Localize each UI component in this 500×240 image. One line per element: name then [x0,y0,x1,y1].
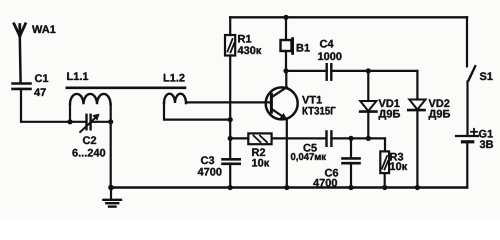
label 0,047мк [291,153,326,162]
label VT1 [302,96,322,104]
label 430к [238,46,262,54]
label B1 [297,44,310,52]
label 47 [34,88,46,96]
label 3В [480,140,493,148]
battery G1 [456,129,478,188]
label C3 [201,156,214,164]
wire emitter down [286,120,288,188]
node VD1 bottom dot [366,136,371,141]
label L1.1 [67,72,88,80]
node D (R2 left dot) [228,136,233,141]
label C2 [83,136,96,144]
node A (antenna/tank junction) [67,119,72,124]
label VD2 [429,99,450,107]
label Д9Б [429,110,450,120]
node top rail B1 dot [283,15,288,20]
label 10к [252,159,269,167]
wire collector up [285,71,287,88]
node C (bias node dot) [228,117,233,122]
node collector junction dot [283,68,288,73]
label C5 [303,144,316,152]
node VD1 top dot [366,68,371,73]
label Д9Б [379,110,400,120]
label G1 [479,130,493,138]
wire tank to ground rail [110,104,112,188]
capacitor C4 [286,64,417,80]
diode VD2 [408,71,425,188]
label 4700 [198,168,222,176]
label R3 [390,153,403,161]
ground [103,188,121,207]
resistor R3 [380,138,389,187]
node B (tank right junction) [108,119,113,124]
ferrite core line [67,87,185,90]
variable capacitor C2 [80,114,111,132]
label 4700 [313,179,337,187]
inductor L1.1 [70,94,111,122]
inductor L1.2 [164,94,230,120]
wire C1 to tank bottom [21,90,85,122]
capacitor C1 [13,84,31,89]
label L1.2 [164,74,185,82]
label 6...240 [72,149,105,157]
label S1 [480,72,493,80]
label C6 [325,169,338,177]
resistor R1 [225,17,235,158]
node C6 top dot [348,136,353,141]
label R1 [238,35,251,43]
label WA1 [32,25,56,33]
top rail [230,16,467,18]
switch S1 [467,17,475,135]
label R2 [252,148,265,156]
diode VD1 [360,71,376,138]
transistor VT1 [266,87,298,120]
wire L1.2 to base [186,101,270,103]
label VD1 [379,99,400,107]
label КТ315Г [303,107,336,115]
label C1 [35,74,48,82]
capacitor C6 [343,138,360,187]
capacitor C5 [327,131,386,145]
label C4 [320,40,334,48]
antenna WA1 [14,24,25,83]
label 1000 [318,52,341,60]
resistor R2 [230,133,326,144]
bottom rail [111,186,467,188]
earphone B1 [281,17,293,71]
label 10к [390,162,407,170]
capacitor C3 [223,159,240,187]
rail junction dots [108,185,114,191]
